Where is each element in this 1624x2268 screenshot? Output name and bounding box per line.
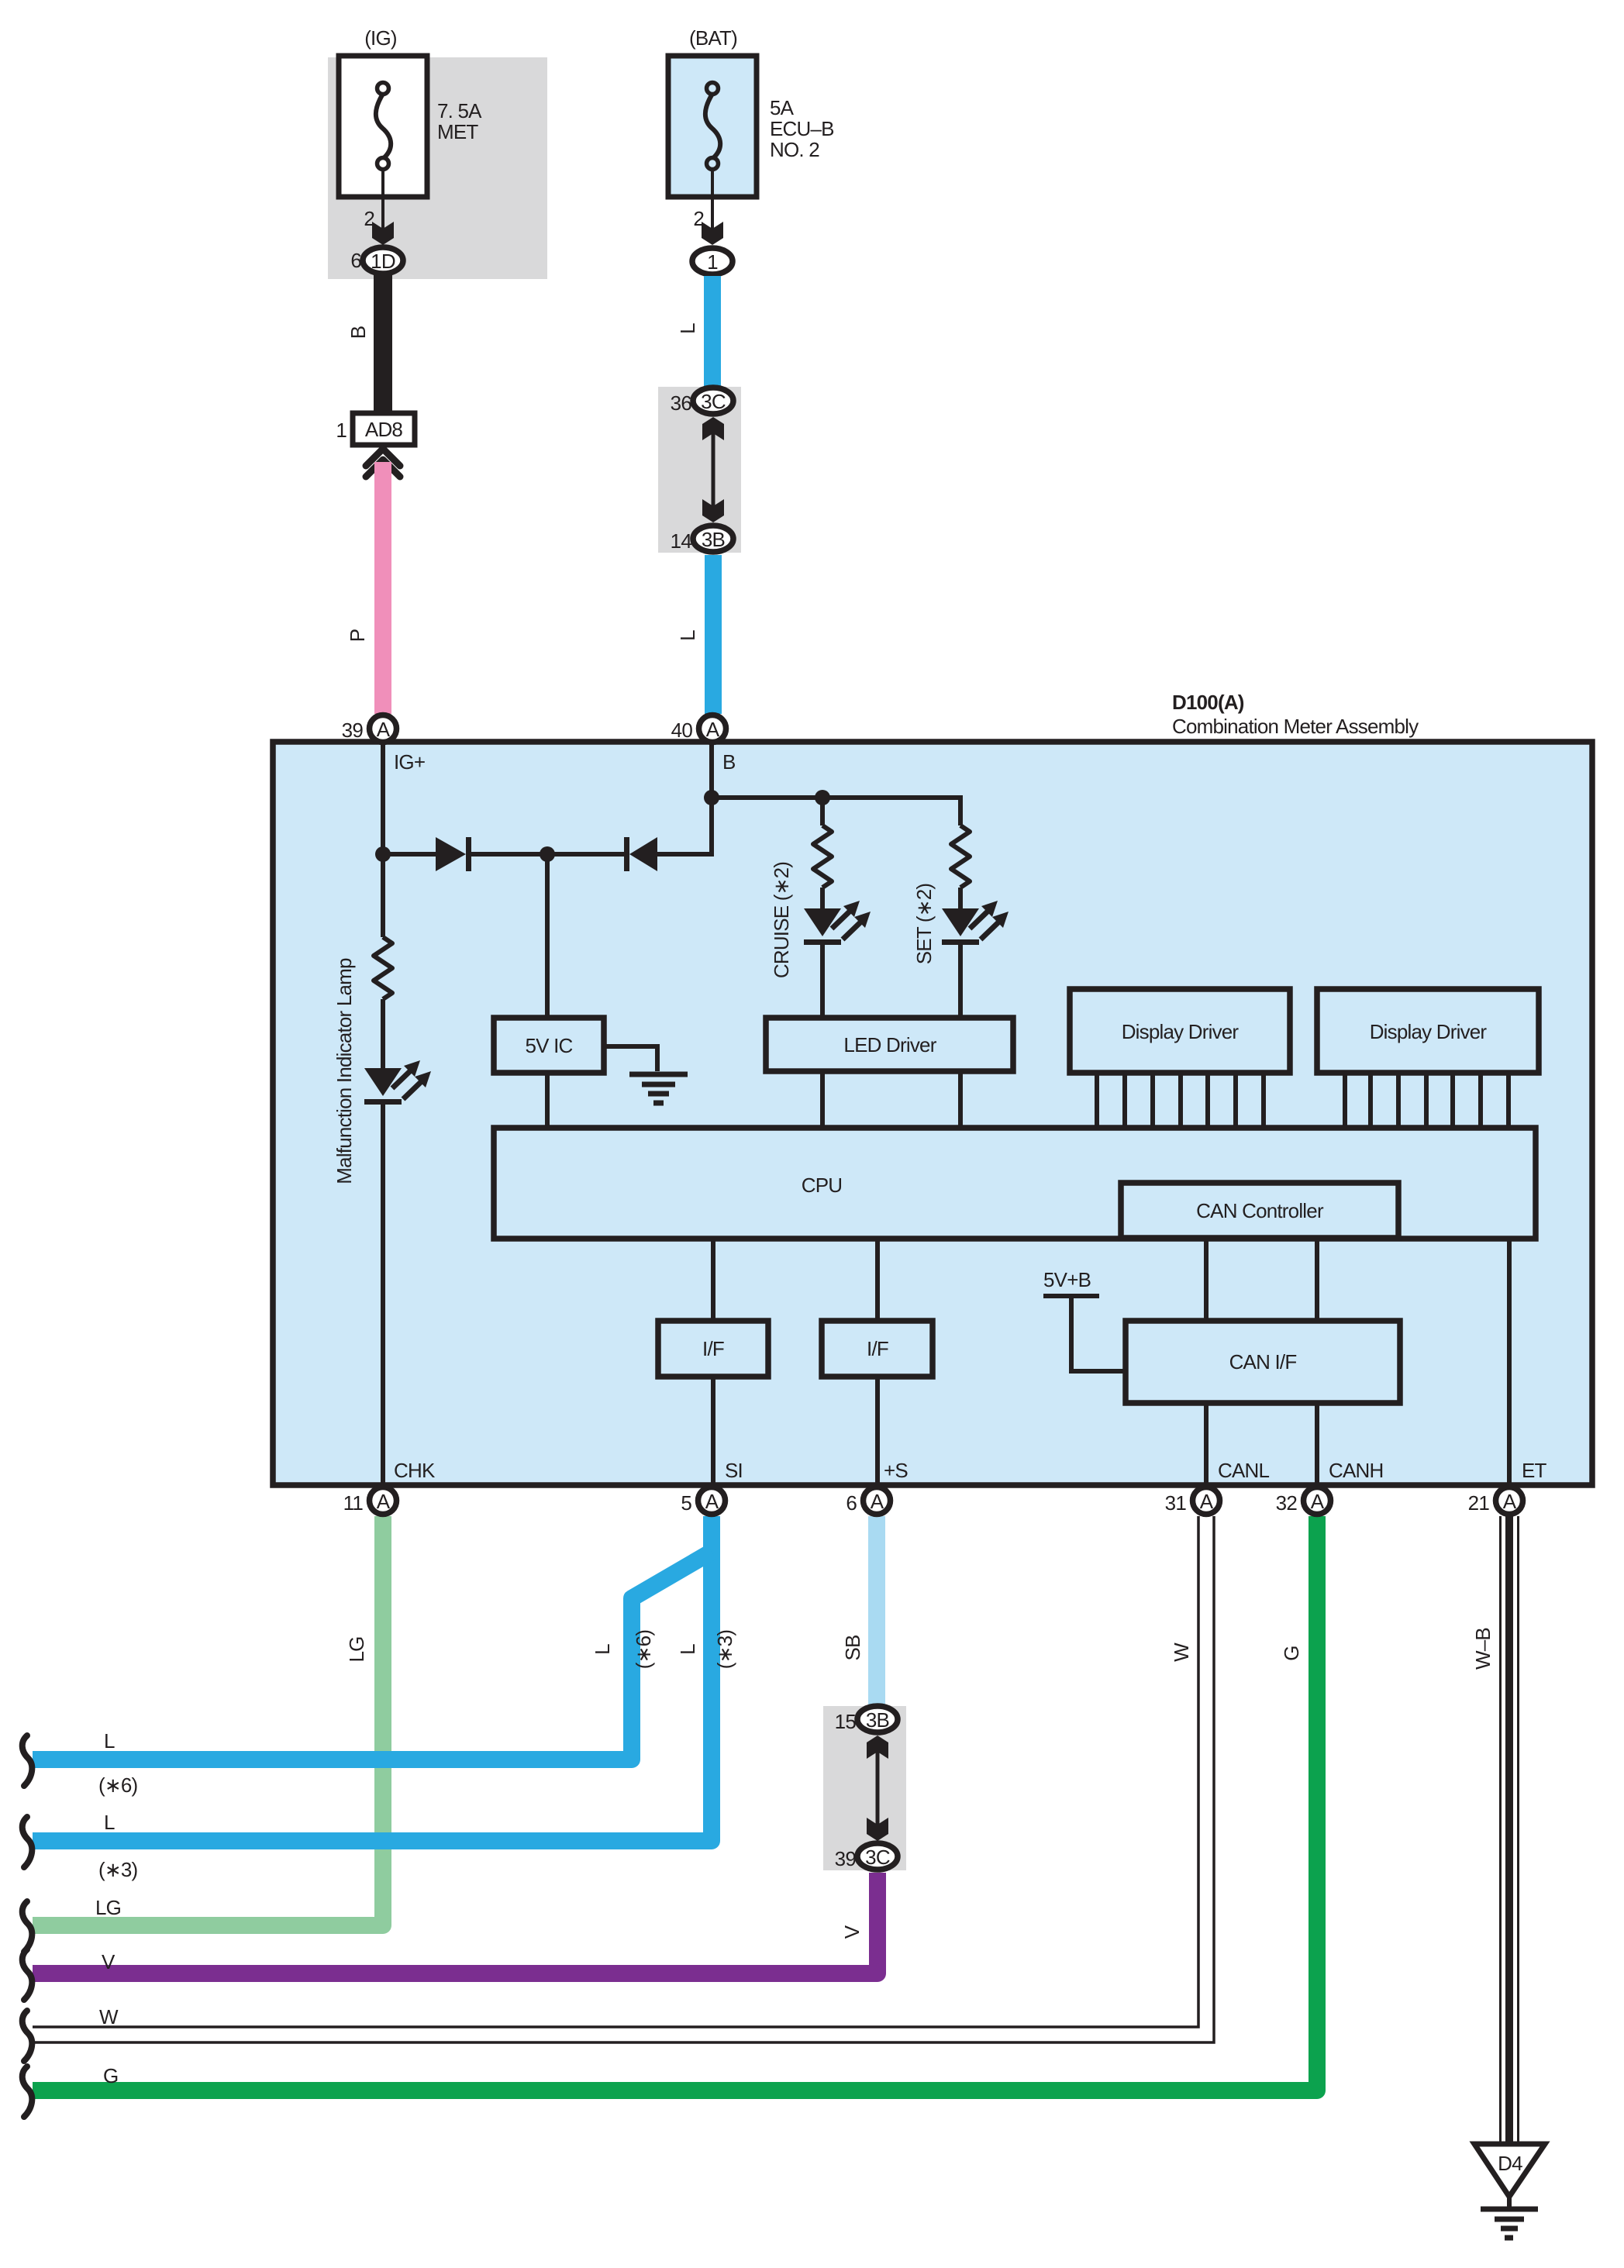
svg-text:ECU–B: ECU–B [770, 117, 834, 140]
wire 5V IC to ground [604, 1046, 657, 1071]
wire CRUISE branch [820, 798, 825, 826]
pin 40 (A) [699, 715, 726, 743]
svg-text:6: 6 [846, 1491, 857, 1515]
connector transition shading 3B/3C [823, 1706, 906, 1870]
svg-text:SB: SB [841, 1635, 864, 1660]
junction arrow down to 3C [867, 1818, 888, 1841]
svg-text:A: A [871, 1490, 884, 1513]
svg-text:I/F: I/F [867, 1337, 888, 1360]
display driver U4 [1317, 989, 1539, 1073]
svg-text:5A: 5A [770, 96, 795, 119]
svg-text:LG: LG [345, 1636, 368, 1662]
LED2 CRUISE [804, 908, 841, 936]
svg-text:L: L [676, 323, 699, 334]
svg-text:6: 6 [350, 249, 361, 272]
continuation squiggle G [22, 2066, 33, 2117]
continuation squiggle L(*6) [22, 1735, 33, 1786]
pin 32 (A) [1304, 1487, 1331, 1515]
wire D1 to junction [471, 852, 547, 857]
wire junction to diode D2 [547, 852, 625, 857]
wire 5V IC to CPU [545, 1073, 550, 1128]
pin 6 (A) [864, 1487, 891, 1515]
wire L (blue) upper [704, 276, 721, 388]
svg-text:W: W [1170, 1642, 1193, 1662]
wire LED driver to CPU (left) [820, 1071, 825, 1128]
wire B vertical [657, 742, 712, 854]
display driver U3 [1070, 989, 1290, 1073]
feed arrow into connector 1 [702, 222, 723, 245]
svg-text:CHK: CHK [394, 1459, 436, 1482]
svg-text:5: 5 [681, 1491, 691, 1515]
junction arrow up to 3C [702, 417, 724, 440]
wire fuse F2 lead [711, 169, 714, 232]
svg-text:CAN Controller: CAN Controller [1196, 1199, 1324, 1222]
regulator U1 5V IC [494, 1018, 604, 1073]
svg-text:1D: 1D [371, 250, 395, 273]
svg-text:15: 15 [835, 1710, 857, 1733]
svg-text:+S: +S [884, 1459, 908, 1482]
combination meter assembly box D100(A) [273, 742, 1592, 1485]
pin 39 (A) [370, 715, 397, 743]
svg-text:NO. 2: NO. 2 [770, 138, 819, 161]
svg-text:G: G [103, 2064, 118, 2087]
connector 1D [363, 247, 403, 274]
wire R2 to LED2 [820, 888, 825, 908]
CPU U5 [494, 1128, 1536, 1239]
wire CAN controller to CAN I/F (right) [1315, 1238, 1319, 1321]
svg-text:P: P [346, 629, 369, 643]
feed arrow into 1D [372, 222, 394, 245]
svg-text:3B: 3B [702, 528, 725, 551]
continuation squiggle V [22, 1949, 33, 2000]
svg-text:AD8: AD8 [365, 418, 403, 441]
svg-text:(∗3): (∗3) [98, 1858, 138, 1881]
wire to diode D1 [383, 852, 436, 857]
resistor R3 (SET) [951, 826, 970, 888]
wire I/F 2 to +S pin [875, 1377, 880, 1485]
junction arrow down to 3B [702, 499, 724, 522]
svg-text:40: 40 [671, 719, 693, 742]
display driver U3 pins [1095, 1073, 1099, 1128]
svg-text:5V IC: 5V IC [525, 1034, 572, 1057]
svg-text:B: B [347, 326, 370, 340]
svg-text:MET: MET [437, 120, 478, 143]
svg-text:W: W [99, 2005, 119, 2028]
connector transition shading 3C/3B [658, 387, 741, 553]
wire SB from +S pin [868, 1516, 885, 1705]
svg-text:B: B [722, 750, 736, 774]
svg-text:D4: D4 [1498, 2152, 1522, 2175]
LED3 SET [942, 908, 979, 936]
double chevron junction below AD8 [366, 449, 400, 466]
svg-text:3C: 3C [865, 1846, 890, 1869]
svg-text:CAN I/F: CAN I/F [1229, 1350, 1297, 1374]
wire V (violet) [33, 1873, 878, 1973]
pin 5 (A) [698, 1487, 726, 1515]
wire R3 to LED3 [958, 888, 963, 908]
svg-text:3C: 3C [701, 390, 726, 413]
wire LED1 to CHK pin [381, 1105, 385, 1485]
wire W-B from ET pin [1499, 1516, 1519, 2144]
display driver U4 pins [1343, 1073, 1347, 1128]
svg-text:36: 36 [671, 391, 692, 415]
wire W (white) from CANL pin [33, 1516, 1198, 2027]
fuse F1 symbol [376, 94, 391, 158]
svg-text:LED Driver: LED Driver [843, 1033, 936, 1056]
svg-text:Combination Meter Assembly: Combination Meter Assembly [1172, 715, 1419, 738]
wire L (blue) lower [705, 555, 722, 714]
wire LED3 to LED driver [958, 945, 963, 1018]
svg-text:CPU: CPU [802, 1174, 843, 1197]
svg-text:3B: 3B [866, 1708, 889, 1732]
pin 11 (A) [370, 1487, 397, 1515]
svg-text:I/F: I/F [702, 1337, 724, 1360]
svg-text:ET: ET [1522, 1459, 1547, 1482]
svg-text:(BAT): (BAT) [689, 26, 737, 50]
connector AD8 [353, 413, 415, 445]
wire R1 to LED1 [381, 999, 385, 1068]
continuation squiggle LG [22, 1901, 33, 1952]
connector 3C (pin 39) [857, 1843, 898, 1870]
connector 3B (pin 14) [693, 526, 733, 552]
fuse F2 symbol [705, 94, 720, 158]
continuation squiggle L(*3) [22, 1817, 33, 1867]
wire P (pink) [374, 462, 391, 714]
svg-text:14: 14 [671, 529, 692, 553]
wire fuse F1 lead [381, 169, 384, 232]
wire LG from CHK pin [33, 1516, 383, 1925]
svg-text:A: A [706, 718, 720, 741]
wire I/F 1 to SI pin [711, 1377, 715, 1485]
svg-text:CANL: CANL [1218, 1459, 1269, 1482]
svg-text:7. 5A: 7. 5A [437, 99, 482, 122]
svg-text:A: A [377, 718, 391, 741]
svg-text:(IG): (IG) [364, 26, 397, 50]
wire G (green) from CANH pin [33, 1516, 1317, 2090]
LED driver U2 [766, 1018, 1013, 1071]
wire between 3C and 3B [712, 426, 715, 513]
wire L(*3) from SI pin [33, 1516, 712, 1841]
svg-text:L: L [676, 630, 699, 641]
svg-text:A: A [1503, 1490, 1517, 1513]
svg-text:L: L [104, 1811, 115, 1834]
wire B branch to SET [712, 798, 960, 826]
diode D2 [624, 837, 629, 871]
wire diode junction to 5V IC [545, 854, 550, 1018]
svg-text:1: 1 [336, 419, 347, 442]
svg-text:IG+: IG+ [394, 750, 425, 774]
resistor R2 (CRUISE) [813, 826, 832, 888]
fuse F2 5A ECU-B box [668, 56, 757, 197]
connector 1 [692, 248, 733, 274]
connector 3C (pin 36) [693, 388, 733, 414]
wire L(*6) branch from SI pin [33, 1552, 712, 1760]
svg-text:L: L [591, 1644, 614, 1655]
node junction dot B branch [704, 790, 719, 805]
pin 21 (A) [1496, 1487, 1523, 1515]
wire CPU to I/F 2 [875, 1239, 880, 1321]
svg-text:Display Driver: Display Driver [1122, 1020, 1240, 1043]
wire CAN I/F to CANL pin [1204, 1403, 1209, 1485]
connector 3B (pin 15) [857, 1706, 898, 1732]
svg-text:A: A [377, 1490, 391, 1513]
ground D4 [1474, 2144, 1545, 2197]
svg-text:A: A [1311, 1490, 1325, 1513]
wire CAN controller to CAN I/F (left) [1204, 1238, 1209, 1321]
svg-text:G: G [1280, 1646, 1303, 1660]
svg-text:V: V [102, 1950, 116, 1973]
continuation squiggle W [22, 2011, 33, 2061]
svg-text:1: 1 [707, 250, 718, 274]
junction arrow up to 3B [867, 1735, 888, 1759]
wire CPU to ET pin [1507, 1239, 1512, 1485]
svg-text:(∗3): (∗3) [713, 1630, 736, 1670]
svg-text:CANH: CANH [1329, 1459, 1383, 1482]
svg-text:A: A [1200, 1490, 1214, 1513]
resistor R1 (MIL) [374, 937, 392, 999]
node junction dot CRUISE branch [815, 790, 830, 805]
wire CAN I/F to CANH pin [1315, 1403, 1319, 1485]
svg-text:D100(A): D100(A) [1172, 691, 1244, 714]
node junction dot mid diodes [540, 846, 555, 862]
svg-text:Malfunction Indicator Lamp: Malfunction Indicator Lamp [333, 958, 356, 1184]
svg-text:CRUISE (∗2): CRUISE (∗2) [770, 862, 793, 978]
svg-text:SI: SI [725, 1459, 743, 1482]
svg-text:W–B: W–B [1471, 1628, 1495, 1670]
svg-text:L: L [104, 1729, 115, 1753]
wire IG+ vertical [381, 742, 385, 937]
wire B (black) [374, 275, 392, 414]
wire between 3B and 3C [876, 1745, 880, 1832]
LED1 malfunction indicator lamp [364, 1068, 402, 1096]
interface U8 I/F [822, 1321, 933, 1377]
svg-text:31: 31 [1165, 1491, 1187, 1515]
svg-text:A: A [705, 1490, 719, 1513]
svg-text:V: V [840, 1925, 864, 1939]
wire LED2 to LED driver [820, 945, 825, 1018]
svg-text:L: L [676, 1644, 699, 1655]
CAN transceiver U9 CAN I/F [1126, 1321, 1400, 1403]
wire 5V+B to CAN I/F [1071, 1296, 1126, 1371]
diode D1 [436, 837, 466, 871]
svg-text:SET (∗2): SET (∗2) [912, 884, 936, 965]
wire LED driver to CPU (right) [958, 1071, 963, 1128]
svg-text:5V+B: 5V+B [1043, 1268, 1091, 1291]
fuse block shading (IG) [328, 57, 547, 279]
pin 31 (A) [1193, 1487, 1220, 1515]
fuse F1 7.5A MET box [339, 56, 427, 197]
CAN controller U6 [1121, 1183, 1398, 1238]
svg-text:(∗6): (∗6) [632, 1630, 655, 1670]
interface U7 I/F [658, 1321, 768, 1377]
svg-text:Display Driver: Display Driver [1370, 1020, 1488, 1043]
svg-text:21: 21 [1468, 1491, 1490, 1515]
svg-text:39: 39 [835, 1847, 857, 1870]
svg-text:32: 32 [1276, 1491, 1298, 1515]
svg-text:(∗6): (∗6) [98, 1773, 138, 1797]
ground (5V IC) [629, 1072, 688, 1077]
wire CPU to I/F 1 [711, 1239, 715, 1321]
svg-text:11: 11 [343, 1491, 364, 1515]
node junction dot IG+ [375, 846, 391, 862]
svg-text:39: 39 [342, 719, 364, 742]
svg-text:LG: LG [95, 1896, 121, 1919]
